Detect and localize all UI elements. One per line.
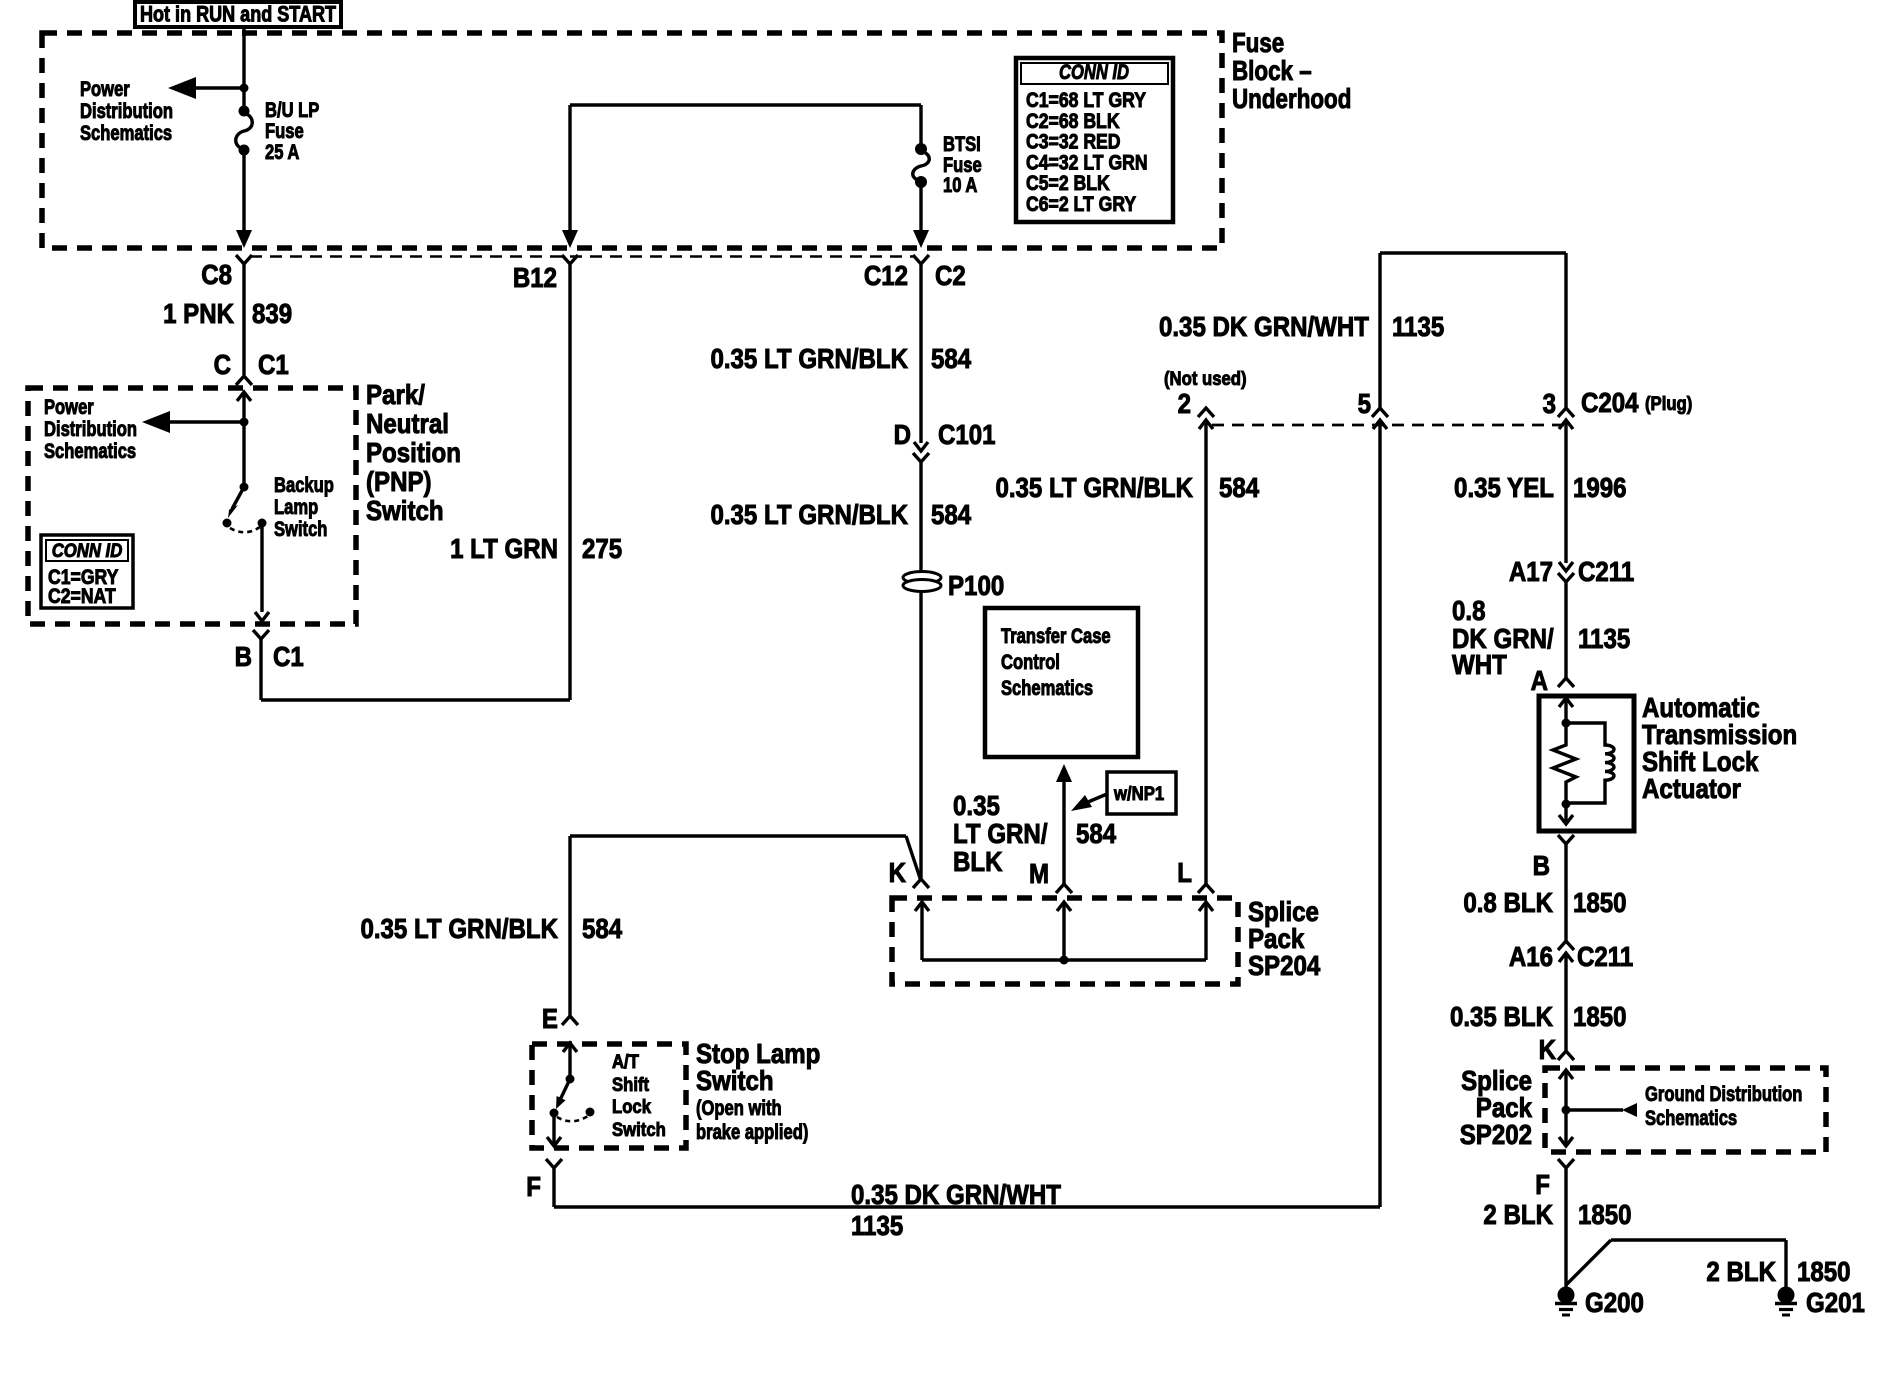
svg-text:0.35 LT GRN/BLK: 0.35 LT GRN/BLK [995, 471, 1193, 503]
svg-text:K: K [889, 856, 907, 888]
svg-text:Underhood: Underhood [1232, 84, 1351, 115]
svg-text:SP202: SP202 [1460, 1118, 1532, 1150]
svg-text:0.35 DK GRN/WHT: 0.35 DK GRN/WHT [1159, 310, 1369, 342]
svg-text:B12: B12 [513, 261, 557, 293]
svg-text:275: 275 [582, 532, 622, 564]
svg-text:Power: Power [80, 78, 130, 101]
svg-text:Ground Distribution: Ground Distribution [1645, 1083, 1802, 1106]
svg-text:C1: C1 [273, 640, 304, 672]
svg-text:0.35 LT GRN/BLK: 0.35 LT GRN/BLK [710, 342, 908, 374]
svg-text:A/T: A/T [612, 1051, 639, 1072]
svg-text:1850: 1850 [1573, 1000, 1627, 1032]
svg-text:Neutral: Neutral [366, 407, 449, 439]
svg-text:Schematics: Schematics [1645, 1107, 1737, 1130]
svg-text:C1: C1 [258, 348, 289, 380]
svg-text:CONN ID: CONN ID [1059, 61, 1129, 84]
svg-text:WHT: WHT [1452, 648, 1507, 680]
svg-text:Distribution: Distribution [80, 100, 173, 123]
svg-text:0.8 BLK: 0.8 BLK [1463, 886, 1553, 918]
svg-text:0.35 BLK: 0.35 BLK [1450, 1000, 1553, 1032]
svg-text:Power: Power [44, 396, 94, 419]
svg-text:L: L [1177, 856, 1192, 888]
svg-text:Control: Control [1001, 651, 1060, 674]
svg-text:B: B [235, 640, 252, 672]
svg-text:0.35 YEL: 0.35 YEL [1454, 471, 1554, 503]
svg-text:A16: A16 [1509, 940, 1553, 972]
svg-text:(Open with: (Open with [696, 1097, 782, 1120]
svg-text:Lamp: Lamp [274, 496, 318, 519]
svg-text:5: 5 [1358, 387, 1371, 419]
svg-text:584: 584 [931, 342, 972, 374]
svg-text:25 A: 25 A [265, 141, 300, 164]
svg-text:B/U LP: B/U LP [265, 99, 319, 122]
svg-text:C8: C8 [201, 258, 232, 290]
svg-text:3: 3 [1543, 387, 1556, 419]
svg-text:K: K [1539, 1033, 1557, 1065]
svg-text:839: 839 [252, 297, 292, 329]
svg-text:(Not used): (Not used) [1164, 368, 1247, 389]
svg-text:E: E [542, 1002, 558, 1034]
svg-text:0.35 DK GRN/WHT: 0.35 DK GRN/WHT [851, 1178, 1061, 1210]
svg-text:10 A: 10 A [943, 174, 978, 197]
svg-text:584: 584 [931, 498, 972, 530]
svg-text:1135: 1135 [1578, 622, 1630, 654]
svg-text:2 BLK: 2 BLK [1483, 1198, 1553, 1230]
svg-text:Backup: Backup [274, 474, 334, 497]
svg-text:Switch: Switch [612, 1119, 666, 1140]
svg-text:C101: C101 [938, 418, 996, 450]
svg-text:2 BLK: 2 BLK [1706, 1255, 1776, 1287]
svg-text:Fuse: Fuse [265, 120, 304, 143]
svg-text:Switch: Switch [274, 518, 327, 541]
svg-text:Schematics: Schematics [1001, 677, 1093, 700]
svg-text:BTSI: BTSI [943, 133, 981, 156]
svg-text:C211: C211 [1578, 555, 1634, 587]
svg-text:Actuator: Actuator [1642, 772, 1741, 804]
svg-text:584: 584 [1219, 471, 1260, 503]
svg-text:F: F [1535, 1168, 1550, 1200]
svg-text:Block –: Block – [1232, 56, 1312, 87]
svg-text:SP204: SP204 [1248, 949, 1321, 981]
svg-text:B: B [1533, 849, 1550, 881]
svg-text:584: 584 [582, 912, 623, 944]
svg-text:CONN ID: CONN ID [52, 540, 123, 561]
svg-text:C2=NAT: C2=NAT [48, 585, 116, 609]
svg-text:Transfer Case: Transfer Case [1001, 625, 1111, 648]
svg-text:G200: G200 [1585, 1286, 1644, 1318]
svg-text:1850: 1850 [1573, 886, 1627, 918]
svg-text:Switch: Switch [366, 494, 444, 526]
svg-text:584: 584 [1076, 817, 1117, 849]
svg-text:A: A [1531, 664, 1549, 696]
svg-text:Hot in RUN and START: Hot in RUN and START [140, 3, 337, 27]
svg-text:1135: 1135 [851, 1209, 903, 1241]
svg-text:Park/: Park/ [366, 378, 425, 410]
svg-text:G201: G201 [1806, 1286, 1865, 1318]
svg-text:1135: 1135 [1392, 310, 1444, 342]
svg-text:C211: C211 [1577, 940, 1633, 972]
svg-text:1850: 1850 [1797, 1255, 1851, 1287]
svg-text:Fuse: Fuse [1232, 28, 1284, 59]
svg-text:C2: C2 [935, 259, 966, 291]
svg-text:C204: C204 [1581, 386, 1639, 418]
svg-text:w/NP1: w/NP1 [1113, 783, 1164, 804]
svg-text:Position: Position [366, 436, 461, 468]
svg-text:1 LT GRN: 1 LT GRN [450, 532, 558, 564]
svg-text:D: D [894, 418, 911, 450]
svg-text:M: M [1029, 857, 1049, 889]
svg-text:(PNP): (PNP) [366, 465, 432, 497]
svg-text:1850: 1850 [1578, 1198, 1632, 1230]
svg-text:Distribution: Distribution [44, 418, 137, 441]
svg-text:1 PNK: 1 PNK [163, 297, 234, 329]
svg-text:C: C [214, 348, 232, 380]
svg-text:Shift: Shift [612, 1074, 649, 1095]
svg-text:Schematics: Schematics [80, 122, 172, 145]
svg-text:1996: 1996 [1573, 471, 1627, 503]
svg-text:0.35 LT GRN/BLK: 0.35 LT GRN/BLK [710, 498, 908, 530]
svg-text:brake applied): brake applied) [696, 1121, 808, 1144]
svg-text:BLK: BLK [953, 845, 1003, 877]
svg-text:(Plug): (Plug) [1645, 393, 1692, 414]
svg-text:A17: A17 [1509, 555, 1553, 587]
svg-text:Schematics: Schematics [44, 440, 136, 463]
svg-text:2: 2 [1178, 387, 1191, 419]
svg-text:Lock: Lock [612, 1096, 651, 1117]
svg-text:P100: P100 [948, 569, 1004, 601]
svg-text:Switch: Switch [696, 1064, 774, 1096]
svg-text:C6=2 LT GRY: C6=2 LT GRY [1026, 193, 1136, 217]
svg-text:F: F [526, 1170, 541, 1202]
svg-text:C12: C12 [864, 259, 908, 291]
svg-text:0.35 LT GRN/BLK: 0.35 LT GRN/BLK [360, 912, 558, 944]
